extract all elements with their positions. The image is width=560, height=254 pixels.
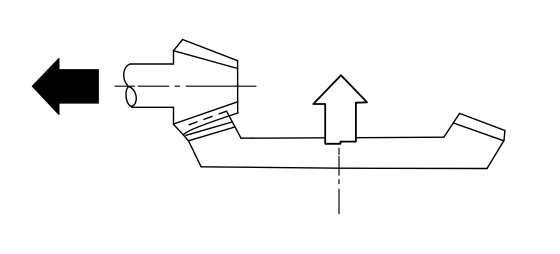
bottom silhouette edge [183,113,238,135]
right tip end [503,131,506,141]
left end face [189,141,202,167]
left tip upper edge [186,122,232,135]
right face [237,61,239,113]
top edge (right of up arrow) [356,136,444,139]
right end face [487,141,504,169]
round-bar break symbol (S-curve and loop) [124,64,137,106]
taper cone / collar [174,40,239,135]
left tip end edge [183,135,188,141]
left face (above shaft) [173,51,175,64]
bottom edge [201,167,487,169]
right tip second edge [454,123,504,141]
top edge (left of up arrow) [241,137,325,139]
shaft (broken round bar) [130,64,173,107]
top front edge [174,51,238,69]
direction arrow (solid black, pointing left) [32,58,98,114]
top back edge [183,40,238,61]
up arrow (hollow outline) [313,75,367,144]
right bend edge [444,113,460,137]
channel bar (long trough) [183,111,505,168]
right tip top edge [460,113,505,130]
horizontal dash-dot centerline of shaft [115,85,256,87]
vertical dash-dot centerline below up arrow [338,148,340,214]
left tip lower edge [189,127,235,141]
bottom chamfer edge [174,102,238,124]
top-left chamfer [174,40,183,51]
left face (below shaft) [173,107,175,124]
left bend near rim (steep curve) [227,111,242,138]
bottom-left chamfer [174,124,184,134]
hidden edge of channel tip under cone (dashed) [189,111,227,125]
